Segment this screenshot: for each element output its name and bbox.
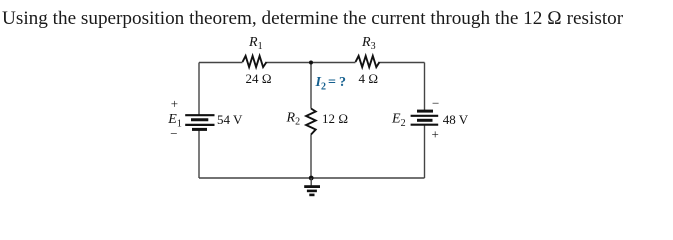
svg-text:4 Ω: 4 Ω <box>359 71 379 86</box>
svg-text:24 Ω: 24 Ω <box>246 71 272 86</box>
ground bar 2 <box>307 190 317 193</box>
wire middle vertical (node to R2) <box>310 63 312 109</box>
node junction dot top (node a) <box>309 61 313 65</box>
wire bottom horizontal <box>199 177 425 179</box>
svg-text:−: − <box>170 126 177 141</box>
svg-text:R2: R2 <box>286 110 301 127</box>
battery E1 plate long bottom <box>185 124 214 126</box>
svg-text:48 V: 48 V <box>443 112 469 127</box>
battery E2 plate short <box>417 119 433 122</box>
ground bar 3 <box>309 194 314 197</box>
battery E1 plate short <box>191 118 208 121</box>
svg-text:E2: E2 <box>391 111 406 128</box>
resistor R3 zigzag <box>356 56 380 67</box>
svg-text:−: − <box>432 96 439 111</box>
svg-text:12 Ω: 12 Ω <box>322 111 348 126</box>
svg-text:R3: R3 <box>361 35 376 52</box>
title text <box>2 8 623 30</box>
battery E2 plate long <box>411 115 439 117</box>
resistor R1 zigzag <box>243 56 267 67</box>
battery E2 plate long bottom <box>411 124 439 126</box>
ground stub wire <box>310 178 312 186</box>
resistor R2 zigzag (vertical) <box>306 109 316 135</box>
ground bar 1 <box>304 185 320 188</box>
node junction dot bottom (ground node) <box>309 176 314 181</box>
wire right vertical (top half, corner to E2) <box>424 63 426 112</box>
svg-text:+: + <box>432 127 439 142</box>
svg-text:R1: R1 <box>248 35 263 52</box>
battery E1 plate short bottom <box>192 128 207 131</box>
wire middle vertical (R2 to bottom) <box>310 135 312 179</box>
wire left vertical (bottom half, E1 to corner) <box>198 130 200 179</box>
wire top-middle segment (R1 to R3 through node) <box>267 62 356 64</box>
wire top-right segment (R3 to top-right corner) <box>380 62 425 64</box>
svg-text:54 V: 54 V <box>217 112 243 127</box>
battery E1 plate long top <box>185 114 214 116</box>
wire right vertical (bottom half, E2 to corner) <box>424 125 426 178</box>
svg-text:+: + <box>171 96 178 111</box>
svg-text:I2=?: I2=? <box>315 75 346 93</box>
battery E2 plate short top <box>417 110 433 113</box>
wire top-left segment (corner to R1) <box>199 62 243 64</box>
wire left vertical (top half, E1 to top-left corner) <box>198 63 200 116</box>
